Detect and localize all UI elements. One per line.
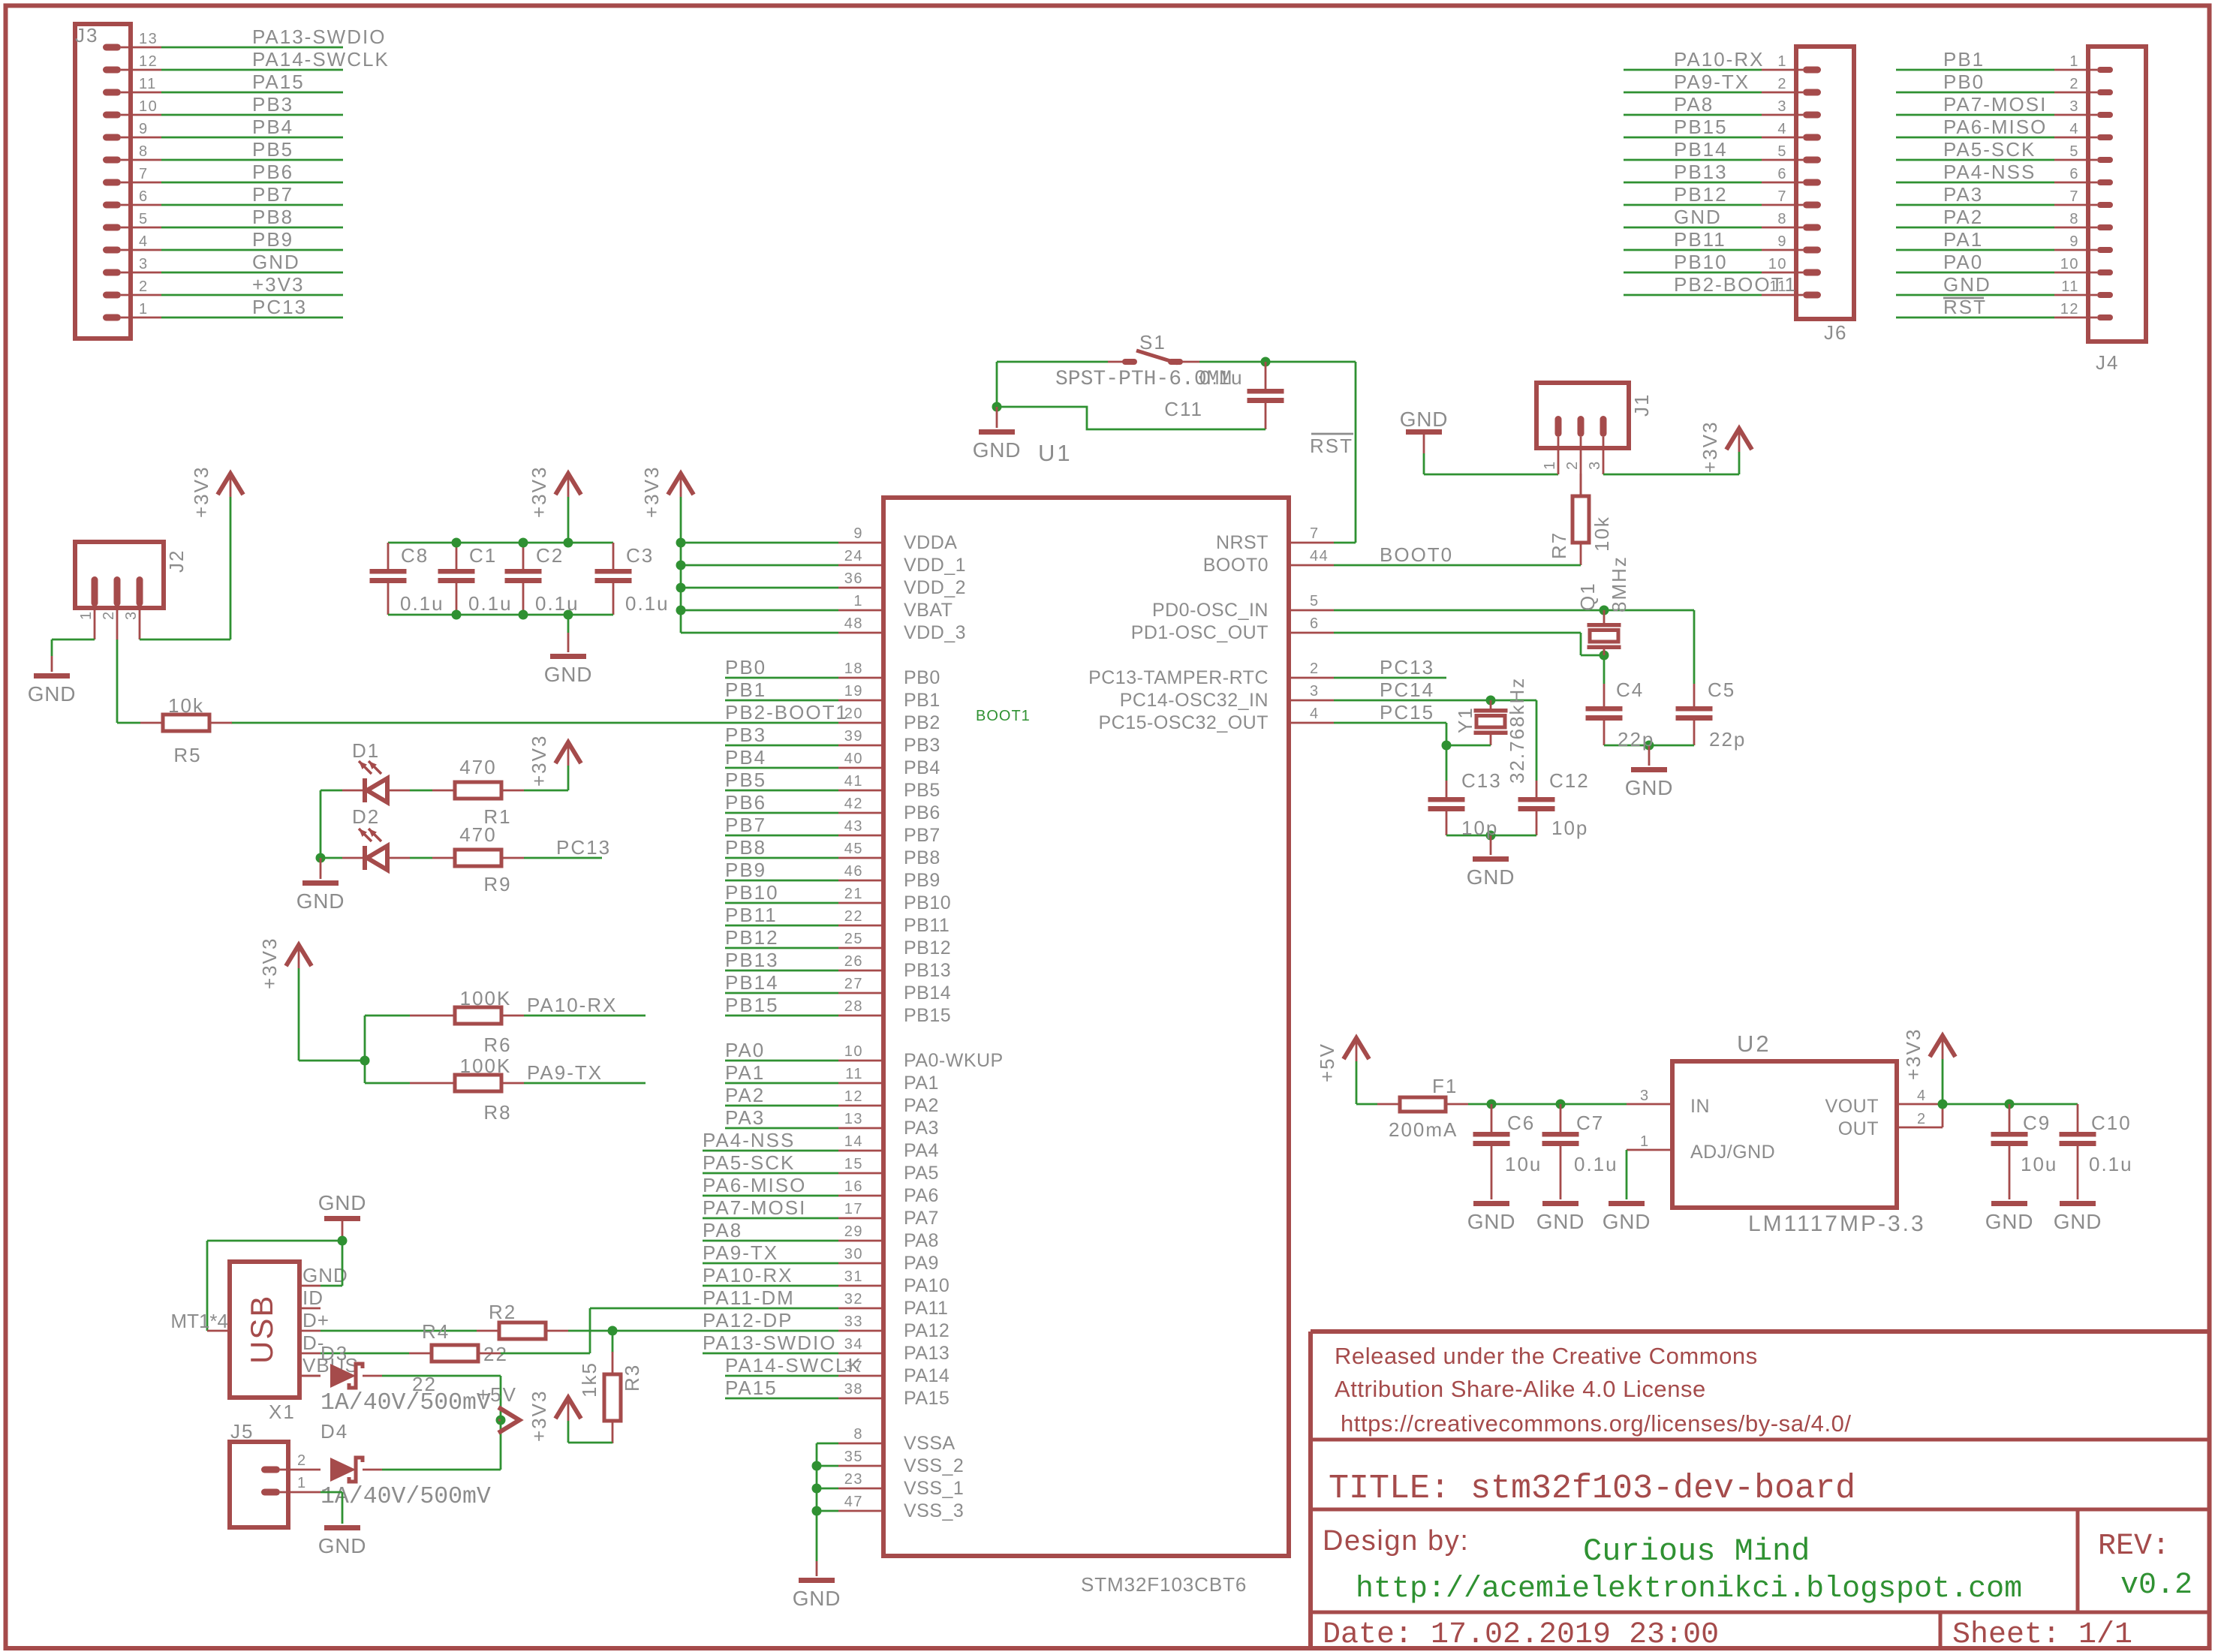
svg-text:PC13: PC13 bbox=[252, 296, 307, 318]
svg-text:7: 7 bbox=[1777, 188, 1787, 205]
svg-text:+3V3: +3V3 bbox=[528, 735, 550, 787]
svg-text:GND: GND bbox=[1400, 408, 1449, 431]
svg-text:0.1u: 0.1u bbox=[1199, 366, 1244, 389]
svg-text:D4: D4 bbox=[321, 1420, 348, 1443]
svg-text:PB11: PB11 bbox=[904, 915, 950, 936]
svg-text:F1: F1 bbox=[1432, 1075, 1458, 1097]
svg-text:46: 46 bbox=[844, 863, 863, 880]
svg-text:GND: GND bbox=[252, 251, 300, 273]
svg-text:S1: S1 bbox=[1139, 331, 1166, 354]
svg-text:5: 5 bbox=[1310, 593, 1320, 609]
svg-text:PA7-MOSI: PA7-MOSI bbox=[703, 1196, 806, 1219]
svg-text:PC14-OSC32_IN: PC14-OSC32_IN bbox=[1120, 690, 1269, 711]
svg-text:PB7: PB7 bbox=[252, 183, 293, 206]
svg-text:BOOT0: BOOT0 bbox=[1203, 555, 1269, 576]
svg-text:C13: C13 bbox=[1461, 769, 1502, 792]
svg-text:PB1: PB1 bbox=[904, 690, 940, 711]
svg-text:PA3: PA3 bbox=[725, 1106, 765, 1129]
svg-text:0.1u: 0.1u bbox=[400, 592, 444, 615]
svg-text:35: 35 bbox=[844, 1449, 863, 1465]
svg-text:28: 28 bbox=[844, 998, 863, 1015]
svg-text:PA10: PA10 bbox=[904, 1275, 950, 1296]
svg-text:25: 25 bbox=[844, 931, 863, 947]
svg-text:PA4: PA4 bbox=[904, 1140, 939, 1161]
svg-text:C8: C8 bbox=[401, 544, 429, 567]
svg-text:10: 10 bbox=[844, 1043, 863, 1060]
svg-text:ADJ/GND: ADJ/GND bbox=[1690, 1142, 1775, 1163]
svg-text:PB8: PB8 bbox=[904, 847, 940, 868]
svg-text:R3: R3 bbox=[621, 1364, 643, 1392]
svg-text:GND: GND bbox=[544, 663, 593, 686]
svg-text:2: 2 bbox=[139, 278, 149, 295]
svg-text:2: 2 bbox=[1310, 660, 1320, 677]
svg-text:PA1: PA1 bbox=[904, 1073, 939, 1094]
svg-text:17: 17 bbox=[844, 1201, 863, 1217]
svg-text:Design by:: Design by: bbox=[1323, 1525, 1470, 1557]
svg-text:PB7: PB7 bbox=[904, 825, 940, 846]
svg-text:VDD_2: VDD_2 bbox=[904, 577, 966, 598]
svg-text:PB1: PB1 bbox=[1943, 48, 1985, 71]
svg-text:PA4-NSS: PA4-NSS bbox=[1943, 161, 2036, 183]
svg-text:10u: 10u bbox=[1505, 1153, 1542, 1175]
svg-text:RST: RST bbox=[1310, 435, 1353, 457]
svg-text:24: 24 bbox=[844, 548, 863, 564]
svg-text:2: 2 bbox=[2069, 76, 2079, 92]
svg-text:470: 470 bbox=[459, 756, 496, 778]
svg-text:3: 3 bbox=[139, 256, 149, 272]
svg-text:J4: J4 bbox=[2096, 351, 2119, 374]
svg-text:PB3: PB3 bbox=[725, 724, 766, 746]
svg-text:5: 5 bbox=[139, 211, 149, 227]
svg-text:+3V3: +3V3 bbox=[1699, 421, 1721, 473]
svg-text:PB2: PB2 bbox=[904, 712, 940, 733]
svg-text:10k: 10k bbox=[168, 694, 204, 717]
svg-text:PA8: PA8 bbox=[703, 1219, 742, 1241]
svg-text:ID: ID bbox=[302, 1286, 324, 1309]
svg-text:PA12-DP: PA12-DP bbox=[703, 1309, 793, 1332]
svg-text:PA2: PA2 bbox=[904, 1095, 939, 1116]
svg-text:OUT: OUT bbox=[1838, 1118, 1879, 1139]
svg-text:MT1*4: MT1*4 bbox=[170, 1310, 228, 1332]
svg-text:14: 14 bbox=[844, 1133, 863, 1150]
svg-text:VSS_2: VSS_2 bbox=[904, 1455, 964, 1476]
svg-text:1: 1 bbox=[1640, 1133, 1650, 1150]
svg-text:https://creativecommons.org/li: https://creativecommons.org/licenses/by-… bbox=[1341, 1410, 1852, 1437]
svg-text:PA13-SWDIO: PA13-SWDIO bbox=[703, 1332, 836, 1354]
svg-text:42: 42 bbox=[844, 796, 863, 812]
svg-text:47: 47 bbox=[844, 1494, 863, 1510]
svg-text:22: 22 bbox=[844, 908, 863, 925]
svg-text:+3V3: +3V3 bbox=[258, 937, 281, 989]
svg-text:PB6: PB6 bbox=[252, 161, 293, 183]
svg-text:1: 1 bbox=[297, 1475, 307, 1491]
svg-text:6: 6 bbox=[2069, 166, 2079, 182]
svg-text:D1: D1 bbox=[352, 739, 380, 762]
svg-text:45: 45 bbox=[844, 841, 863, 857]
svg-text:7: 7 bbox=[139, 166, 149, 182]
svg-text:PB15: PB15 bbox=[904, 1005, 951, 1026]
svg-text:PB10: PB10 bbox=[1674, 251, 1728, 273]
svg-text:19: 19 bbox=[844, 683, 863, 700]
svg-text:44: 44 bbox=[1310, 548, 1329, 564]
svg-text:PA10-RX: PA10-RX bbox=[703, 1264, 793, 1286]
svg-text:PC14: PC14 bbox=[1380, 679, 1434, 701]
svg-text:PB4: PB4 bbox=[904, 757, 940, 778]
svg-text:10u: 10u bbox=[2021, 1153, 2057, 1175]
svg-text:PC13: PC13 bbox=[556, 836, 611, 859]
svg-text:PA12: PA12 bbox=[904, 1320, 950, 1341]
svg-text:J3: J3 bbox=[75, 24, 98, 47]
svg-text:PB5: PB5 bbox=[904, 780, 940, 801]
svg-text:Curious Mind: Curious Mind bbox=[1583, 1533, 1810, 1569]
svg-text:GND: GND bbox=[1943, 273, 1991, 296]
svg-text:PA9-TX: PA9-TX bbox=[703, 1241, 778, 1264]
svg-text:31: 31 bbox=[844, 1268, 863, 1285]
svg-text:4: 4 bbox=[1777, 121, 1787, 137]
svg-text:40: 40 bbox=[844, 751, 863, 767]
svg-text:PB6: PB6 bbox=[904, 802, 940, 823]
svg-text:100K: 100K bbox=[460, 987, 512, 1010]
svg-text:VSS_1: VSS_1 bbox=[904, 1478, 964, 1499]
svg-text:GND: GND bbox=[1625, 776, 1674, 799]
svg-text:0.1u: 0.1u bbox=[468, 592, 513, 615]
svg-text:PA9: PA9 bbox=[904, 1253, 939, 1274]
svg-text:1: 1 bbox=[853, 593, 863, 609]
svg-text:2: 2 bbox=[101, 610, 117, 620]
svg-text:R5: R5 bbox=[173, 744, 201, 766]
svg-text:GND: GND bbox=[973, 438, 1022, 462]
svg-text:R8: R8 bbox=[483, 1101, 511, 1124]
svg-text:PA5: PA5 bbox=[904, 1163, 939, 1184]
svg-text:VDDA: VDDA bbox=[904, 532, 957, 553]
svg-text:PA2: PA2 bbox=[725, 1084, 765, 1106]
svg-text:Date: 17.02.2019 23:00: Date: 17.02.2019 23:00 bbox=[1323, 1618, 1719, 1652]
svg-text:11: 11 bbox=[139, 76, 157, 92]
svg-text:PA10-RX: PA10-RX bbox=[527, 994, 617, 1016]
svg-text:8: 8 bbox=[2069, 211, 2079, 227]
svg-text:15: 15 bbox=[844, 1156, 863, 1172]
svg-text:PA7: PA7 bbox=[904, 1208, 939, 1229]
svg-text:PA5-SCK: PA5-SCK bbox=[1943, 138, 2036, 161]
svg-text:0.1u: 0.1u bbox=[625, 592, 670, 615]
svg-text:PA1: PA1 bbox=[725, 1061, 765, 1084]
svg-text:PB12: PB12 bbox=[725, 926, 779, 949]
svg-text:PB15: PB15 bbox=[1674, 116, 1728, 138]
svg-text:PA14-SWCLK: PA14-SWCLK bbox=[725, 1354, 862, 1377]
svg-text:10p: 10p bbox=[1551, 817, 1588, 839]
svg-text:R9: R9 bbox=[483, 873, 511, 895]
svg-text:GND: GND bbox=[1985, 1210, 2034, 1233]
svg-text:PA0-WKUP: PA0-WKUP bbox=[904, 1050, 1004, 1071]
svg-text:9: 9 bbox=[1777, 233, 1787, 250]
svg-text:2: 2 bbox=[1777, 76, 1787, 92]
svg-text:1k5: 1k5 bbox=[578, 1362, 600, 1398]
svg-text:6: 6 bbox=[1777, 166, 1787, 182]
svg-text:PA8: PA8 bbox=[904, 1230, 939, 1251]
svg-text:PA1: PA1 bbox=[1943, 228, 1983, 251]
svg-text:10: 10 bbox=[139, 98, 158, 115]
svg-text:PA3: PA3 bbox=[1943, 183, 1983, 206]
svg-text:470: 470 bbox=[459, 823, 496, 846]
svg-text:PA7-MOSI: PA7-MOSI bbox=[1943, 93, 2047, 116]
svg-text:7: 7 bbox=[1310, 525, 1320, 542]
svg-text:PA6-MISO: PA6-MISO bbox=[703, 1174, 806, 1196]
svg-text:1A/40V/500mV: 1A/40V/500mV bbox=[321, 1484, 491, 1510]
svg-text:PD0-OSC_IN: PD0-OSC_IN bbox=[1152, 600, 1269, 621]
svg-text:C4: C4 bbox=[1616, 679, 1644, 701]
svg-text:PC13-TAMPER-RTC: PC13-TAMPER-RTC bbox=[1088, 667, 1269, 688]
svg-text:PA0: PA0 bbox=[725, 1039, 765, 1061]
svg-text:PB8: PB8 bbox=[725, 836, 766, 859]
svg-text:PB12: PB12 bbox=[904, 937, 951, 958]
svg-text:R7: R7 bbox=[1548, 531, 1570, 559]
svg-text:PA3: PA3 bbox=[904, 1118, 939, 1139]
svg-text:PA0: PA0 bbox=[1943, 251, 1983, 273]
svg-text:VOUT: VOUT bbox=[1825, 1096, 1879, 1117]
svg-text:+3V3: +3V3 bbox=[528, 466, 550, 518]
svg-text:+5V: +5V bbox=[1316, 1043, 1338, 1082]
svg-text:+5V: +5V bbox=[477, 1383, 517, 1406]
svg-text:BOOT1: BOOT1 bbox=[976, 708, 1031, 724]
svg-text:PB1: PB1 bbox=[725, 679, 766, 701]
svg-text:PB14: PB14 bbox=[1674, 138, 1728, 161]
svg-text:27: 27 bbox=[844, 976, 863, 992]
svg-text:6: 6 bbox=[1310, 615, 1320, 632]
svg-text:3: 3 bbox=[1640, 1088, 1650, 1104]
svg-text:VDD_3: VDD_3 bbox=[904, 622, 966, 643]
svg-text:GND: GND bbox=[2054, 1210, 2102, 1233]
svg-text:VDD_1: VDD_1 bbox=[904, 555, 966, 576]
svg-text:VSSA: VSSA bbox=[904, 1433, 956, 1454]
svg-text:29: 29 bbox=[844, 1223, 863, 1240]
svg-text:PA9-TX: PA9-TX bbox=[527, 1061, 603, 1084]
svg-text:4: 4 bbox=[1310, 706, 1320, 722]
svg-text:GND: GND bbox=[28, 682, 77, 706]
svg-text:100K: 100K bbox=[460, 1055, 512, 1077]
svg-text:D+: D+ bbox=[302, 1309, 330, 1332]
svg-text:USB: USB bbox=[244, 1295, 279, 1364]
svg-text:STM32F103CBT6: STM32F103CBT6 bbox=[1081, 1573, 1247, 1596]
svg-text:4: 4 bbox=[1917, 1088, 1927, 1104]
svg-text:VSS_3: VSS_3 bbox=[904, 1500, 964, 1521]
svg-text:39: 39 bbox=[844, 728, 863, 745]
svg-text:6: 6 bbox=[139, 188, 149, 205]
svg-text:Sheet: 1/1: Sheet: 1/1 bbox=[1952, 1618, 2132, 1652]
svg-text:PB7: PB7 bbox=[725, 814, 766, 836]
svg-text:PA15: PA15 bbox=[904, 1388, 950, 1409]
svg-text:1: 1 bbox=[1542, 460, 1558, 470]
svg-text:PB5: PB5 bbox=[252, 138, 293, 161]
svg-text:GND: GND bbox=[793, 1587, 841, 1610]
svg-text:0.1u: 0.1u bbox=[535, 592, 579, 615]
svg-text:16: 16 bbox=[844, 1178, 863, 1195]
svg-text:PB4: PB4 bbox=[252, 116, 293, 138]
svg-text:5: 5 bbox=[1777, 143, 1787, 160]
svg-text:J6: J6 bbox=[1824, 321, 1847, 344]
svg-text:REV:: REV: bbox=[2098, 1530, 2170, 1563]
svg-text:R6: R6 bbox=[483, 1034, 511, 1056]
svg-text:+3V3: +3V3 bbox=[190, 466, 212, 518]
svg-text:10: 10 bbox=[2060, 256, 2079, 272]
svg-text:PA15: PA15 bbox=[252, 71, 305, 93]
svg-text:38: 38 bbox=[844, 1381, 863, 1398]
svg-text:C11: C11 bbox=[1164, 398, 1203, 420]
svg-text:PB15: PB15 bbox=[725, 994, 779, 1016]
svg-text:PB11: PB11 bbox=[1674, 228, 1726, 251]
svg-text:PB14: PB14 bbox=[904, 982, 951, 1004]
svg-text:PB10: PB10 bbox=[904, 892, 951, 913]
svg-text:2: 2 bbox=[1564, 460, 1581, 470]
svg-text:PB10: PB10 bbox=[725, 881, 779, 904]
svg-text:18: 18 bbox=[844, 660, 863, 677]
svg-text:C7: C7 bbox=[1576, 1112, 1604, 1134]
svg-text:4: 4 bbox=[2069, 121, 2079, 137]
svg-text:PA14: PA14 bbox=[904, 1365, 950, 1386]
svg-text:10: 10 bbox=[1768, 256, 1787, 272]
svg-text:8: 8 bbox=[853, 1426, 863, 1443]
svg-text:36: 36 bbox=[844, 570, 863, 587]
svg-text:PA11: PA11 bbox=[904, 1298, 948, 1319]
svg-text:12: 12 bbox=[139, 53, 158, 70]
svg-text:PB0: PB0 bbox=[725, 656, 766, 679]
svg-text:34: 34 bbox=[844, 1336, 863, 1353]
svg-text:8MHz: 8MHz bbox=[1608, 555, 1630, 612]
svg-text:X1: X1 bbox=[269, 1401, 296, 1423]
svg-text:PB8: PB8 bbox=[252, 206, 293, 228]
svg-text:3: 3 bbox=[1310, 683, 1320, 700]
svg-text:1: 1 bbox=[1777, 53, 1787, 70]
svg-text:3: 3 bbox=[2069, 98, 2079, 115]
svg-text:22p: 22p bbox=[1618, 728, 1654, 751]
svg-text:22p: 22p bbox=[1709, 728, 1746, 751]
svg-text:PB13: PB13 bbox=[725, 949, 779, 971]
svg-text:2: 2 bbox=[1917, 1111, 1927, 1127]
svg-text:1A/40V/500mV: 1A/40V/500mV bbox=[321, 1390, 491, 1416]
svg-text:23: 23 bbox=[844, 1471, 863, 1488]
svg-text:TITLE: stm32f103-dev-board: TITLE: stm32f103-dev-board bbox=[1329, 1470, 1855, 1508]
svg-text:R4: R4 bbox=[422, 1320, 450, 1343]
svg-text:43: 43 bbox=[844, 818, 863, 835]
svg-text:PB5: PB5 bbox=[725, 769, 766, 791]
svg-text:4: 4 bbox=[139, 233, 149, 250]
svg-text:PC13: PC13 bbox=[1380, 656, 1434, 679]
svg-text:0.1u: 0.1u bbox=[1574, 1153, 1618, 1175]
svg-text:2: 2 bbox=[297, 1452, 307, 1469]
svg-text:5: 5 bbox=[2069, 143, 2079, 160]
svg-text:J5: J5 bbox=[230, 1420, 254, 1443]
svg-text:GND: GND bbox=[1467, 865, 1515, 889]
svg-text:3: 3 bbox=[1587, 460, 1603, 470]
svg-text:12: 12 bbox=[844, 1088, 863, 1105]
svg-text:PA10-RX: PA10-RX bbox=[1674, 48, 1764, 71]
svg-text:U2: U2 bbox=[1737, 1031, 1771, 1057]
svg-text:PB9: PB9 bbox=[725, 859, 766, 881]
svg-text:PB4: PB4 bbox=[725, 746, 766, 769]
svg-text:Q1: Q1 bbox=[1576, 582, 1599, 611]
svg-text:13: 13 bbox=[139, 31, 158, 47]
svg-text:1: 1 bbox=[2069, 53, 2079, 70]
svg-text:9: 9 bbox=[2069, 233, 2079, 250]
svg-text:10p: 10p bbox=[1461, 817, 1498, 839]
svg-text:PA14-SWCLK: PA14-SWCLK bbox=[252, 48, 390, 71]
svg-text:3: 3 bbox=[123, 610, 140, 620]
svg-text:8: 8 bbox=[1777, 211, 1787, 227]
svg-text:32.768kHz: 32.768kHz bbox=[1506, 677, 1528, 784]
svg-text:GND: GND bbox=[1467, 1210, 1516, 1233]
svg-text:+3V3: +3V3 bbox=[1902, 1028, 1925, 1080]
svg-text:1: 1 bbox=[78, 610, 95, 620]
svg-text:C3: C3 bbox=[626, 544, 654, 567]
svg-text:D2: D2 bbox=[352, 805, 380, 828]
svg-text:C6: C6 bbox=[1507, 1112, 1535, 1134]
svg-text:RST: RST bbox=[1943, 296, 1987, 318]
svg-text:+3V3: +3V3 bbox=[528, 1390, 550, 1442]
svg-text:v0.2: v0.2 bbox=[2120, 1569, 2192, 1602]
svg-text:GND: GND bbox=[296, 889, 345, 913]
svg-text:GND: GND bbox=[1536, 1210, 1585, 1233]
svg-text:12: 12 bbox=[2060, 301, 2079, 317]
svg-text:PA4-NSS: PA4-NSS bbox=[703, 1129, 795, 1151]
svg-text:PB9: PB9 bbox=[252, 228, 293, 251]
svg-text:48: 48 bbox=[844, 615, 863, 632]
svg-text:J2: J2 bbox=[165, 549, 188, 573]
svg-text:U1: U1 bbox=[1038, 440, 1073, 466]
svg-text:PB3: PB3 bbox=[904, 735, 940, 756]
svg-text:GND: GND bbox=[1674, 206, 1722, 228]
svg-text:9: 9 bbox=[853, 525, 863, 542]
svg-text:C12: C12 bbox=[1549, 769, 1590, 792]
svg-text:R2: R2 bbox=[489, 1301, 516, 1323]
svg-text:PC15: PC15 bbox=[1380, 701, 1434, 724]
svg-text:PB0: PB0 bbox=[1943, 71, 1985, 93]
svg-text:GND: GND bbox=[318, 1191, 367, 1214]
svg-text:33: 33 bbox=[844, 1313, 863, 1330]
svg-text:26: 26 bbox=[844, 953, 863, 970]
svg-text:PB13: PB13 bbox=[1674, 161, 1728, 183]
svg-text:11: 11 bbox=[845, 1066, 863, 1082]
svg-text:VBAT: VBAT bbox=[904, 600, 953, 621]
svg-text:PA11-DM: PA11-DM bbox=[703, 1286, 795, 1309]
svg-text:PA13-SWDIO: PA13-SWDIO bbox=[252, 26, 386, 48]
svg-text:J1: J1 bbox=[1630, 393, 1653, 417]
svg-text:C9: C9 bbox=[2023, 1112, 2051, 1134]
svg-text:Released under the Creative Co: Released under the Creative Commons bbox=[1335, 1343, 1758, 1369]
svg-text:PB12: PB12 bbox=[1674, 183, 1728, 206]
svg-text:C5: C5 bbox=[1708, 679, 1735, 701]
svg-text:C2: C2 bbox=[536, 544, 564, 567]
svg-text:30: 30 bbox=[844, 1246, 863, 1262]
svg-text:LM1117MP-3.3: LM1117MP-3.3 bbox=[1748, 1211, 1926, 1236]
svg-text:PD1-OSC_OUT: PD1-OSC_OUT bbox=[1131, 622, 1269, 643]
svg-text:GND: GND bbox=[1603, 1210, 1651, 1233]
svg-text:7: 7 bbox=[2069, 188, 2079, 205]
svg-text:PB11: PB11 bbox=[725, 904, 778, 926]
svg-text:C1: C1 bbox=[469, 544, 497, 567]
svg-text:PB9: PB9 bbox=[904, 870, 940, 891]
svg-text:http://acemielektronikci.blogs: http://acemielektronikci.blogspot.com bbox=[1356, 1572, 2022, 1606]
svg-text:Y1: Y1 bbox=[1454, 706, 1476, 733]
svg-text:D3: D3 bbox=[321, 1342, 348, 1365]
svg-text:PB2-BOOT1: PB2-BOOT1 bbox=[725, 701, 848, 724]
svg-text:PB2-BOOT1: PB2-BOOT1 bbox=[1674, 273, 1797, 296]
svg-text:NRST: NRST bbox=[1216, 532, 1269, 553]
svg-text:PB6: PB6 bbox=[725, 791, 766, 814]
svg-text:PB13: PB13 bbox=[904, 960, 951, 981]
svg-text:PB0: PB0 bbox=[904, 667, 940, 688]
svg-text:PB14: PB14 bbox=[725, 971, 779, 994]
svg-text:1: 1 bbox=[139, 301, 149, 317]
svg-text:PA15: PA15 bbox=[725, 1377, 778, 1399]
